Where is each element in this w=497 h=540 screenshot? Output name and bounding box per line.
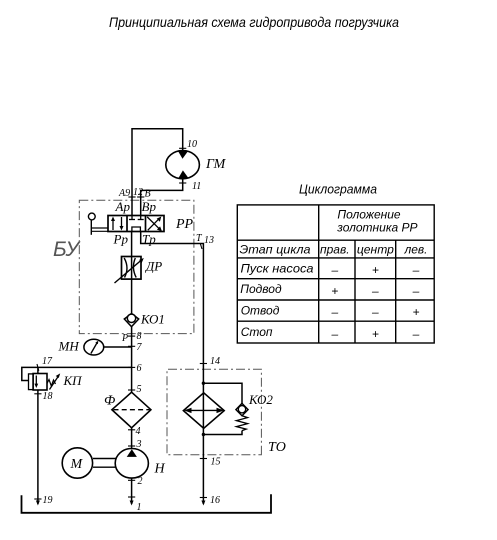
svg-text:Подвод: Подвод [240,282,282,296]
svg-text:РР: РР [175,217,194,232]
wire P main line valve to throttle [131,232,133,257]
node 5 [128,389,135,391]
svg-text:Этап цикла: Этап цикла [240,242,311,256]
node 1 [128,496,135,498]
svg-text:19: 19 [43,495,53,506]
wire T line valve to right riser [141,232,204,505]
svg-text:16: 16 [210,495,220,506]
junction dot 1 [202,382,205,385]
check valve KO1 [124,314,138,327]
svg-text:+: + [372,327,379,341]
arrow into tank line 16 [201,501,205,506]
node 7 [128,345,135,347]
svg-text:МН: МН [58,339,80,354]
valve RR right cell crossed arrows [147,217,162,232]
svg-text:15: 15 [211,457,221,468]
valve RR centre cell blocked ports [129,216,144,220]
svg-text:–: – [412,327,420,341]
directional valve RR body [108,216,164,232]
wire A: valve port Ap up and over to motor [132,129,183,216]
svg-text:Пуск насоса: Пуск насоса [241,262,314,276]
svg-text:P: P [121,333,128,344]
dash-dot enclosure BU box [79,200,194,333]
svg-text:5: 5 [137,384,142,395]
svg-text:Положение: Положение [337,208,400,222]
svg-text:–: – [330,305,338,319]
node 6 [128,366,135,368]
svg-text:прав.: прав. [320,242,350,256]
svg-text:11: 11 [192,181,201,192]
node 16 [200,497,207,499]
node 2 [128,479,135,481]
table row: stop [241,325,420,341]
svg-text:Отвод: Отвод [241,303,280,317]
node 15 [200,458,207,460]
hydraulic motor GM [166,151,200,179]
wire B: motor bottom down-left to valve port Bp [141,179,183,216]
table row: retract [241,303,420,319]
node 14 [200,363,207,365]
svg-text:КО2: КО2 [248,392,273,407]
cyclogram table grid [237,205,434,343]
svg-text:13: 13 [204,235,214,246]
electric motor M [62,448,92,478]
throttle valve DR [115,257,144,284]
arrow into tank line 19 [36,501,40,506]
svg-text:КО1: КО1 [140,312,165,327]
node 19 [34,498,41,500]
svg-text:БУ: БУ [53,238,81,261]
svg-text:Стоп: Стоп [241,325,273,339]
svg-text:8: 8 [137,331,142,342]
svg-text:+: + [372,263,379,277]
node 11 [179,182,186,184]
svg-text:17: 17 [42,356,53,367]
pressure gauge MN [84,339,104,355]
svg-text:2: 2 [138,476,143,487]
svg-text:–: – [371,284,379,298]
svg-text:золотника РР: золотника РР [336,221,417,235]
svg-text:12: 12 [133,187,143,198]
valve RR centre cell P-T bypass [132,227,141,232]
wire KO2 back to main line [203,431,242,435]
wire gauge to node 7 [104,346,132,348]
svg-text:Pp: Pp [113,232,129,247]
wire throttle to check valve KO1 [131,279,133,314]
svg-text:лев.: лев. [403,242,427,256]
table column heads [240,242,428,256]
svg-text:ДР: ДР [144,259,162,274]
svg-text:18: 18 [43,391,53,402]
shaft coupling [93,459,116,468]
svg-text:10: 10 [187,139,197,150]
svg-text:14: 14 [210,356,220,367]
svg-text:Принципиальная схема гидроприв: Принципиальная схема гидропривода погруз… [109,14,399,30]
node 4 [128,429,135,431]
svg-text:–: – [412,263,420,277]
svg-text:–: – [412,284,420,298]
svg-text:центр: центр [357,242,394,256]
svg-text:КП: КП [63,373,84,388]
wire KP to tank line 19 [37,390,39,504]
svg-text:М: М [70,457,84,472]
table header text [336,208,417,235]
svg-text:Ф: Ф [104,394,115,409]
svg-text:+: + [412,305,419,319]
svg-text:1: 1 [137,502,142,513]
svg-text:ГМ: ГМ [205,157,227,172]
svg-text:Н: Н [154,462,166,477]
svg-text:4: 4 [136,426,141,437]
heat exchanger TO symbol [183,393,224,429]
svg-text:А9: А9 [118,188,130,199]
svg-text:+: + [331,284,338,298]
tank [22,494,272,513]
node T 13 [196,233,214,249]
relief valve KP [29,367,61,390]
node 17 [37,364,39,371]
svg-text:В: В [145,189,151,200]
valve RR lever control [88,213,108,235]
valve RR left cell arrows [111,217,124,231]
svg-text:–: – [371,305,379,319]
wire pump to tank line 1 [131,478,133,504]
svg-text:Ap: Ap [115,199,131,214]
svg-text:6: 6 [137,363,142,374]
filter F [112,392,151,428]
check valve KO2 [236,403,248,430]
arrow into tank line 1 [130,501,134,506]
svg-text:–: – [330,327,338,341]
node 9 [128,196,135,198]
node 10 [179,147,186,149]
node 18 [34,393,41,395]
svg-text:ТО: ТО [268,440,286,455]
wire node 6 to relief valve pilot [22,367,132,380]
node 8 [128,335,135,337]
table row: advance [240,282,419,298]
junction dot 2 [202,433,205,436]
wire filter to pump [131,428,133,449]
pump N [115,449,148,479]
dash-dot enclosure TO box [167,369,261,455]
svg-text:Циклограмма: Циклограмма [299,183,377,197]
svg-text:–: – [330,263,338,277]
node 12 [137,196,144,198]
node 3 [128,445,135,447]
wire KO1 down to filter [131,327,133,393]
wire branch to check valve KO2 [203,383,242,403]
svg-text:Bp: Bp [142,199,157,214]
table row: start pump [241,262,420,278]
